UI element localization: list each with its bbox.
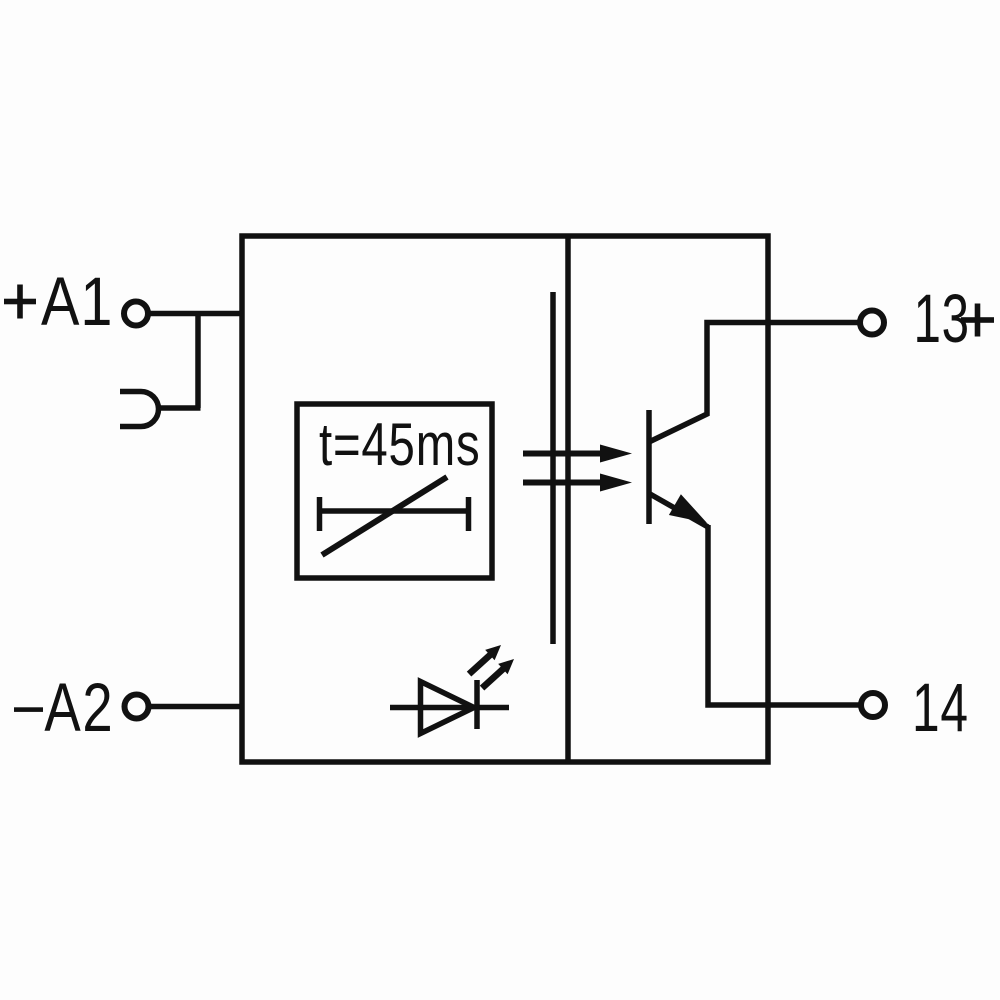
isolation barrier line (550, 292, 556, 644)
wire A1 to module (148, 311, 242, 317)
phototransistor emitter diagonal (650, 494, 708, 527)
terminal circle 13+ (860, 311, 884, 335)
module outline box (242, 236, 768, 762)
phototransistor collector wire to 13+ (650, 323, 858, 442)
terminal label +A1 (4, 263, 113, 340)
optical coupling arrow 2 (523, 474, 632, 492)
timer axis right tick (466, 497, 472, 531)
phototransistor base bar (646, 410, 652, 524)
terminal label -A2 (14, 670, 114, 747)
svg-text:t=45ms: t=45ms (319, 412, 480, 479)
terminal label 13+ (914, 280, 995, 357)
LED triangle (421, 682, 475, 734)
timer axis left tick (317, 497, 323, 531)
wire A2 to module (149, 704, 243, 710)
phototransistor emitter arrow (669, 494, 707, 523)
svg-text:A1: A1 (41, 263, 113, 340)
wire A1 branch vertical (195, 314, 201, 409)
optical coupling arrow 1 (523, 445, 632, 463)
LED anode lead line (390, 705, 509, 711)
LED light arrow 1 (467, 645, 501, 677)
svg-text:A2: A2 (44, 670, 114, 747)
LED light arrow 2 (480, 659, 514, 691)
timer axis line (317, 508, 471, 514)
terminal circle A2 (125, 695, 149, 719)
socket contact half-circle (120, 392, 159, 427)
terminal circle 14 (861, 693, 885, 717)
timer function box (297, 404, 492, 578)
LED cathode bar (474, 680, 480, 729)
timer ramp diagonal (322, 477, 447, 555)
emitter vertical wire (708, 525, 860, 705)
wire branch to socket contact (157, 405, 201, 411)
internal divider wall (565, 236, 571, 762)
svg-text:14: 14 (912, 669, 969, 746)
terminal circle A1 (124, 302, 148, 326)
